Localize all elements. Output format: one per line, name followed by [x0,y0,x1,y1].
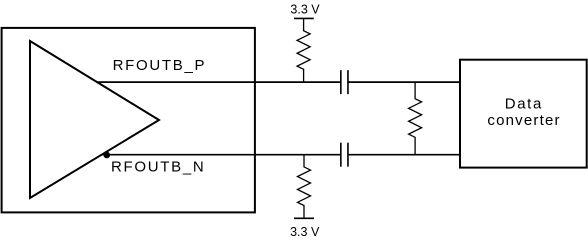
op-amp triangle [30,41,159,198]
capacitor C2 right plate [347,143,349,167]
wire RFOUTB_P [97,81,341,83]
svg-text:RFOUTB_N: RFOUTB_N [111,158,205,175]
supply rail bar bottom [294,217,314,219]
data converter box [460,60,587,168]
svg-text:Data: Data [505,95,543,112]
resistor R2 pull-down [298,155,311,219]
resistor R1 pull-up [297,18,310,82]
wire RFOUTB_N [102,154,341,156]
capacitor C2 left plate [340,143,342,167]
svg-text:3.3 V: 3.3 V [290,225,320,238]
wire C2 to converter [348,154,460,156]
amplifier block U1 [2,28,255,213]
svg-text:converter: converter [487,112,560,129]
svg-text:3.3 V: 3.3 V [290,3,320,17]
capacitor C1 left plate [340,70,342,94]
junction dot on RFOUTB_N [104,152,111,159]
shunt resistor R3 [409,82,422,155]
supply rail bar top [294,17,314,19]
svg-text:RFOUTB_P: RFOUTB_P [113,57,207,74]
capacitor C1 right plate [347,70,349,94]
wire C1 to converter [348,81,460,83]
